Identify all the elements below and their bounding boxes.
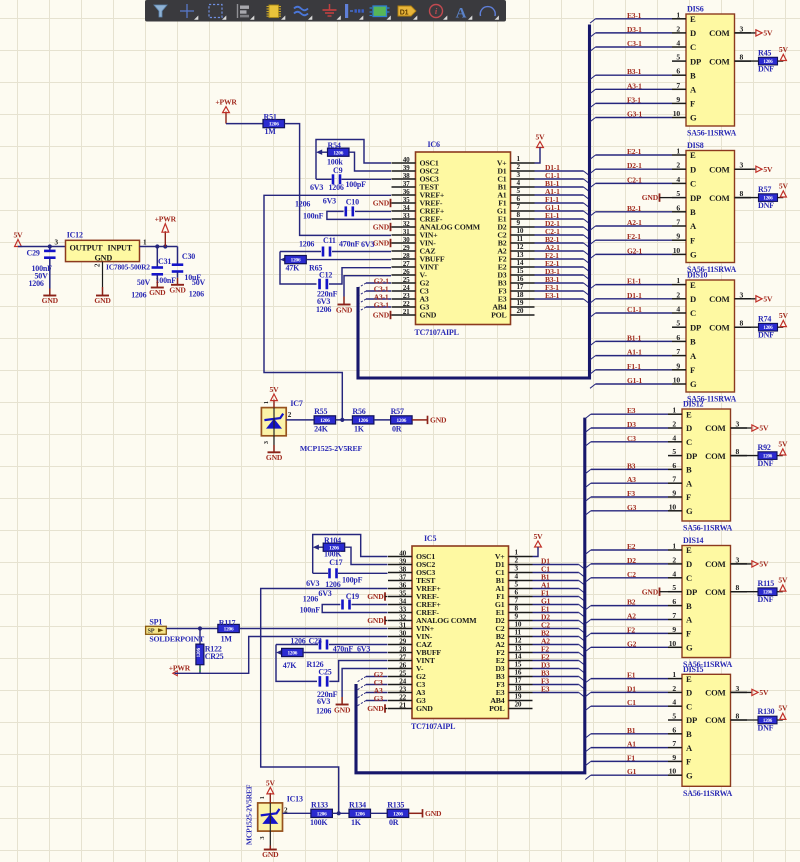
bus entry [590, 370, 596, 374]
svg-text:A: A [686, 478, 693, 488]
power port 5V IC13 [266, 778, 276, 803]
svg-text:GND: GND [373, 311, 390, 320]
capacitor C11 470nF [280, 236, 391, 257]
svg-text:GND: GND [430, 416, 447, 425]
svg-text:IC7805-500R2: IC7805-500R2 [106, 263, 150, 272]
bus entry [358, 701, 367, 706]
svg-text:36: 36 [403, 188, 410, 196]
svg-text:1206: 1206 [317, 811, 327, 817]
bus entry [590, 285, 596, 289]
wire DIS14 COM3 to 5V [731, 563, 752, 565]
bus entry [585, 469, 591, 473]
svg-text:1206: 1206 [290, 637, 305, 646]
wire G2-1 [596, 253, 673, 255]
svg-text:G: G [690, 379, 697, 389]
svg-text:9: 9 [676, 232, 680, 241]
wire E1 IC5 [533, 612, 579, 614]
resistor R117 1M [218, 618, 240, 643]
svg-text:10: 10 [669, 767, 677, 776]
bus entry [585, 647, 591, 651]
svg-text:B: B [686, 465, 692, 475]
wire R45 to 5V [778, 60, 784, 62]
svg-text:100K: 100K [310, 818, 328, 827]
wire B3-1 [535, 282, 584, 284]
svg-text:F1-1: F1-1 [627, 362, 641, 371]
svg-text:B2: B2 [627, 598, 636, 607]
svg-text:R51: R51 [264, 113, 277, 122]
svg-text:E1-1: E1-1 [627, 277, 642, 286]
bus entry [584, 219, 590, 223]
svg-text:R74: R74 [758, 314, 771, 323]
wire G3 IC5 [366, 700, 388, 702]
bus entry [358, 677, 367, 682]
svg-text:DP: DP [686, 715, 697, 725]
svg-text:39: 39 [399, 557, 406, 565]
wire A3 [591, 482, 668, 484]
wire R51 to VIN+ [285, 124, 392, 236]
wire F1 [591, 760, 668, 762]
wire A3 IC5 [366, 692, 388, 694]
svg-text:6V3: 6V3 [323, 196, 336, 205]
svg-text:D: D [686, 688, 692, 698]
display DIS12 SA56-11SRWA body [668, 400, 747, 533]
svg-text:27: 27 [403, 260, 410, 268]
wire DIS15 COM3 to 5V [731, 691, 752, 693]
svg-text:9: 9 [676, 95, 680, 104]
svg-text:R55: R55 [314, 407, 327, 416]
svg-text:5V: 5V [779, 45, 789, 54]
wire D1-1 [596, 298, 673, 300]
svg-text:1206: 1206 [29, 279, 44, 288]
svg-text:B: B [690, 70, 696, 80]
svg-text:D1-1: D1-1 [627, 291, 642, 300]
svg-text:5: 5 [676, 53, 680, 62]
wire C11 to C12 loop [280, 252, 317, 285]
wire A2-1 [596, 225, 673, 227]
svg-text:8: 8 [736, 447, 740, 456]
svg-text:GND: GND [266, 453, 283, 462]
svg-text:COM: COM [709, 294, 729, 304]
bus entry [579, 637, 585, 641]
bus entry [358, 299, 367, 304]
svg-text:E3: E3 [541, 685, 550, 694]
resistor R92 DNF [758, 443, 778, 468]
svg-text:GND: GND [169, 285, 186, 294]
wire A1 IC5 [533, 588, 579, 590]
svg-text:32: 32 [399, 613, 406, 621]
svg-text:2: 2 [676, 24, 680, 33]
svg-text:5V: 5V [759, 688, 769, 697]
bus entry [590, 212, 596, 216]
wire G2-1 [366, 282, 391, 284]
svg-text:DIS15: DIS15 [683, 665, 704, 674]
svg-text:2: 2 [517, 163, 521, 171]
svg-text:8: 8 [736, 583, 740, 592]
svg-text:C: C [690, 42, 696, 52]
bus entry [585, 761, 591, 765]
junction [337, 811, 341, 815]
svg-text:5: 5 [517, 187, 521, 195]
svg-text:3: 3 [55, 239, 59, 247]
svg-text:F3: F3 [627, 489, 635, 498]
svg-text:B: B [686, 729, 692, 739]
ground IC13 [262, 831, 279, 859]
svg-text:9: 9 [515, 613, 519, 621]
wire R134 R135 [371, 812, 388, 814]
svg-text:F1: F1 [627, 753, 635, 762]
svg-text:DNF: DNF [758, 201, 774, 210]
svg-text:DP: DP [690, 322, 701, 332]
ground VIN- pin30 [373, 239, 391, 248]
svg-text:1206: 1206 [189, 289, 204, 298]
diode IC7 MCP1525-2V5REF body [261, 399, 362, 453]
svg-text:GND: GND [42, 296, 59, 305]
svg-text:1206: 1206 [197, 647, 202, 657]
wire A1-1 [535, 194, 584, 196]
svg-text:1206: 1206 [355, 811, 365, 817]
svg-text:10: 10 [515, 621, 522, 629]
svg-text:G1-1: G1-1 [627, 376, 642, 385]
svg-text:7: 7 [676, 81, 680, 90]
svg-text:1206: 1206 [299, 239, 314, 248]
svg-text:3: 3 [736, 684, 740, 693]
toolbar sheet symbol icon [373, 6, 387, 17]
wire D1-1 [535, 170, 584, 172]
bus entry [358, 693, 367, 698]
svg-text:1: 1 [263, 401, 270, 404]
power port 5V R74 [779, 311, 789, 327]
wire R117 to VIN+ [239, 628, 387, 630]
svg-text:E: E [690, 150, 696, 160]
junction [340, 418, 344, 422]
power port 5V IC7 [270, 385, 280, 408]
svg-text:C31: C31 [158, 257, 171, 266]
svg-text:DIS10: DIS10 [687, 271, 708, 280]
svg-text:3: 3 [515, 565, 519, 573]
svg-text:R134: R134 [349, 800, 366, 809]
svg-text:R45: R45 [758, 48, 771, 57]
wire OSC1 loop [316, 140, 391, 180]
svg-text:5: 5 [515, 581, 519, 589]
svg-text:5: 5 [676, 189, 680, 198]
svg-text:G2-1: G2-1 [627, 246, 642, 255]
bus entry [585, 706, 591, 710]
svg-text:5V: 5V [778, 439, 788, 448]
svg-text:47K: 47K [283, 661, 298, 670]
svg-text:D3: D3 [627, 420, 636, 429]
wire G1-1 [596, 383, 673, 385]
wire R130 to 5V [777, 719, 783, 721]
wire B1-1 [535, 186, 584, 188]
svg-text:1206: 1206 [320, 418, 330, 424]
resistor R51 1M [263, 113, 285, 137]
wire F1-1 [596, 369, 673, 371]
svg-text:4: 4 [517, 179, 521, 187]
ground C29 [42, 259, 59, 306]
ground C31 [149, 275, 166, 297]
svg-text:TC7107AIPL: TC7107AIPL [415, 328, 459, 337]
svg-text:COM: COM [705, 559, 725, 569]
svg-text:F: F [690, 365, 695, 375]
capacitor C29 [27, 247, 56, 289]
svg-text:5V: 5V [534, 532, 544, 541]
wire E3-1 [596, 18, 673, 20]
toolbar cross icon [186, 4, 188, 18]
bus entry [585, 775, 591, 779]
svg-text:D: D [690, 294, 696, 304]
svg-text:GND: GND [367, 704, 384, 713]
ground IC7 [266, 436, 283, 462]
bus entry [585, 748, 591, 752]
svg-text:10: 10 [517, 227, 524, 235]
resistor R130 DNF [758, 707, 778, 732]
svg-text:10: 10 [669, 639, 677, 648]
svg-text:COM: COM [709, 193, 729, 203]
svg-text:B1: B1 [627, 726, 636, 735]
svg-text:G: G [686, 643, 693, 653]
svg-text:B1-1: B1-1 [627, 333, 642, 342]
svg-text:COM: COM [709, 28, 729, 38]
wire C3-1 [366, 290, 391, 292]
bus entry [585, 734, 591, 738]
bus entry [358, 685, 367, 690]
svg-text:GND: GND [373, 223, 390, 232]
toolbar no-erc icon [430, 5, 443, 18]
svg-text:5V: 5V [536, 133, 546, 142]
svg-text:GND: GND [95, 254, 113, 263]
wire B2-1 [535, 242, 584, 244]
svg-text:5: 5 [676, 319, 680, 328]
svg-text:1K: 1K [354, 425, 365, 434]
toolbar selection icon [209, 5, 222, 18]
svg-text:22: 22 [403, 300, 410, 308]
svg-text:C1: C1 [627, 698, 636, 707]
wire F2-1 [535, 258, 584, 260]
svg-text:A1: A1 [627, 740, 636, 749]
bus entry [590, 299, 596, 303]
wire R55 R56 [336, 419, 353, 421]
display DIS6 SA56-11SRWA body [672, 5, 751, 138]
svg-text:R115: R115 [758, 579, 775, 588]
svg-text:13: 13 [517, 251, 524, 259]
svg-text:COM: COM [709, 164, 729, 174]
svg-text:D: D [686, 423, 692, 433]
svg-text:SP1: SP1 [149, 618, 162, 627]
svg-text:G3-1: G3-1 [374, 301, 389, 310]
svg-text:1206: 1206 [316, 707, 331, 716]
capacitor C23 470nF [276, 637, 388, 654]
svg-text:GND: GND [416, 704, 433, 713]
wire D3-1 [535, 274, 584, 276]
svg-text:5V: 5V [759, 424, 769, 433]
svg-text:A: A [690, 351, 697, 361]
svg-text:4: 4 [515, 573, 519, 581]
svg-text:G: G [690, 250, 697, 260]
bus entry [584, 291, 590, 295]
toolbar [145, 0, 506, 22]
svg-text:15: 15 [517, 267, 524, 275]
wire A3-1 [596, 88, 673, 90]
svg-text:1: 1 [672, 542, 676, 551]
svg-text:F: F [686, 629, 691, 639]
toolbar bus icon [345, 4, 348, 18]
svg-text:7: 7 [676, 347, 680, 356]
svg-text:2: 2 [515, 557, 519, 565]
bus entry [584, 243, 590, 247]
bus entry [585, 679, 591, 683]
svg-text:26: 26 [399, 661, 406, 669]
capacitor C19 100nF [300, 592, 388, 615]
wire D2-1 [535, 226, 584, 228]
svg-text:E3-1: E3-1 [627, 11, 642, 20]
svg-text:37: 37 [399, 573, 406, 581]
svg-text:9: 9 [672, 753, 676, 762]
junction [48, 244, 52, 248]
ground VREF- IC5 [367, 592, 387, 601]
power port 5V DIS12 COM3 [752, 424, 769, 433]
svg-text:F: F [690, 235, 695, 245]
svg-text:IC5: IC5 [424, 534, 436, 543]
svg-text:0R: 0R [392, 425, 402, 434]
ground ANALOG COMM IC5 [367, 616, 387, 625]
ground R57 [412, 416, 447, 425]
wire DIS6 COM8 to R45 [735, 60, 759, 62]
capacitor C25 220nF [316, 661, 388, 716]
svg-text:G: G [686, 770, 693, 780]
svg-text:470nF: 470nF [339, 240, 360, 249]
svg-text:8: 8 [517, 211, 521, 219]
junction [163, 244, 167, 248]
bus entry [585, 442, 591, 446]
wire C2 IC5 [533, 628, 579, 630]
svg-text:SA56-11SRWA: SA56-11SRWA [687, 129, 737, 138]
ground ANALOG COMM pin32 [373, 223, 391, 232]
svg-text:A: A [690, 221, 697, 231]
svg-text:C2-1: C2-1 [627, 175, 642, 184]
bus entry [584, 259, 590, 263]
bus entry [585, 578, 591, 582]
svg-text:E1: E1 [627, 671, 636, 680]
svg-text:R130: R130 [758, 707, 775, 716]
svg-text:1206: 1206 [131, 291, 146, 300]
svg-text:6: 6 [515, 589, 519, 597]
svg-text:7: 7 [515, 597, 519, 605]
svg-text:24: 24 [399, 677, 406, 685]
svg-text:12: 12 [517, 243, 524, 251]
svg-text:G2: G2 [627, 639, 637, 648]
svg-text:39: 39 [403, 164, 410, 172]
svg-text:6: 6 [676, 67, 680, 76]
svg-text:14: 14 [517, 259, 524, 267]
power port 5V DIS6 COM3 [756, 29, 773, 38]
power port 5V IC6 [536, 133, 546, 148]
svg-text:6V3: 6V3 [361, 240, 374, 249]
power port 5V DIS14 COM3 [752, 560, 769, 569]
ground R135 [409, 809, 442, 818]
capacitor C31 [131, 247, 176, 300]
svg-text:D3-1: D3-1 [627, 25, 642, 34]
bus entry [579, 645, 585, 649]
bus entry [584, 275, 590, 279]
svg-text:5: 5 [672, 712, 676, 721]
bus entry [579, 661, 585, 665]
wire A1-1 [596, 355, 673, 357]
wire C1-1 [535, 178, 584, 180]
bus top [358, 25, 590, 379]
svg-text:COM: COM [705, 688, 725, 698]
svg-text:5V: 5V [763, 295, 773, 304]
bus entry [579, 685, 585, 689]
svg-text:C11: C11 [323, 236, 336, 245]
connector SP1 SOLDERPOINT [146, 618, 205, 644]
ground DIS14 DP [642, 587, 668, 596]
svg-text:38: 38 [399, 565, 406, 573]
svg-text:1M: 1M [265, 127, 277, 136]
wire A1 [591, 747, 668, 749]
resistor R74 DNF [758, 314, 778, 339]
wire D3 [591, 427, 668, 429]
svg-text:CR25: CR25 [205, 652, 224, 661]
svg-text:5V: 5V [779, 311, 789, 320]
bus entry [585, 633, 591, 637]
svg-text:C23: C23 [309, 637, 322, 646]
bus entry [579, 621, 585, 625]
op-amp IC5 TC7107AIPL body [388, 534, 533, 731]
display DIS15 SA56-11SRWA body [668, 665, 747, 798]
svg-text:6: 6 [672, 597, 676, 606]
wire A2 IC5 [533, 644, 579, 646]
svg-text:6: 6 [676, 333, 680, 342]
wire F3-1 [596, 102, 673, 104]
svg-text:4: 4 [676, 39, 680, 48]
toolbar ground icon [329, 4, 331, 10]
svg-text:DNF: DNF [758, 723, 774, 732]
svg-text:2: 2 [288, 411, 292, 419]
label 1206 6V3 IC5 [303, 589, 332, 604]
svg-text:F3-1: F3-1 [627, 95, 641, 104]
svg-text:D2: D2 [627, 556, 636, 565]
svg-text:1: 1 [515, 549, 519, 557]
svg-text:9: 9 [517, 219, 521, 227]
svg-text:4: 4 [676, 305, 680, 314]
bus entry [585, 483, 591, 487]
bus entry [590, 356, 596, 360]
wire R115 to 5V [777, 591, 783, 593]
svg-text:G: G [690, 113, 697, 123]
wire OSC1 loop IC5 [313, 535, 388, 574]
bus entry [579, 581, 585, 585]
svg-text:7: 7 [676, 218, 680, 227]
wire F1 IC5 [533, 596, 579, 598]
bus entry [590, 75, 596, 79]
wire V- to GND [344, 276, 391, 297]
wire E1-1 [535, 218, 584, 220]
svg-text:G: G [686, 506, 693, 516]
svg-text:6: 6 [517, 195, 521, 203]
svg-text:C19: C19 [346, 592, 359, 601]
svg-text:17: 17 [515, 677, 522, 685]
svg-text:7: 7 [517, 203, 521, 211]
svg-text:G1: G1 [627, 767, 637, 776]
svg-text:1206: 1206 [295, 200, 310, 209]
wire D2-1 [596, 168, 673, 170]
wire G3-1 [596, 117, 673, 119]
svg-text:B3-1: B3-1 [627, 67, 642, 76]
bus entry [579, 629, 585, 633]
svg-text:G3: G3 [627, 503, 637, 512]
svg-text:6V3: 6V3 [306, 579, 319, 588]
bus bottom [356, 418, 585, 773]
